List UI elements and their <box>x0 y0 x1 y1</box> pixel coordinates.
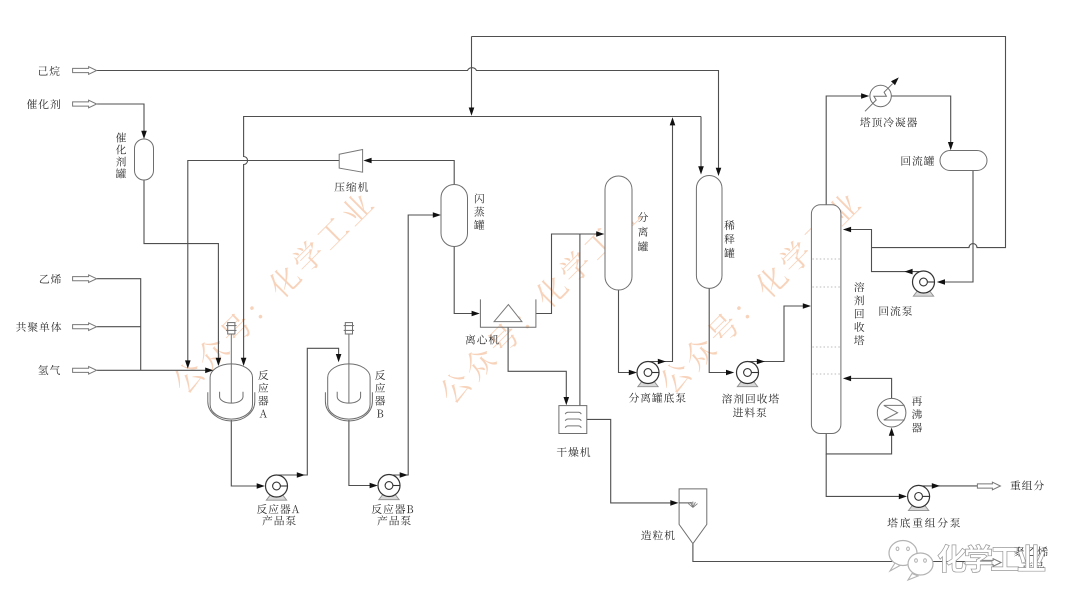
catalyst tank V1 <box>135 139 154 180</box>
label pump A <box>257 504 299 526</box>
label pump B <box>372 504 413 526</box>
wire dryer to granulator <box>587 419 679 505</box>
wire column bottoms to reboiler <box>826 428 894 454</box>
pump P-A product <box>266 475 288 500</box>
wire catalyst tank to reactor A <box>144 180 221 366</box>
label catalyst <box>27 99 60 109</box>
dryer <box>559 406 587 434</box>
wire separator bottom to pump <box>619 290 638 375</box>
wire ethylene feed <box>97 279 141 371</box>
wire flash bottom to centrifuge <box>454 247 480 317</box>
label catalyst tank <box>116 132 126 178</box>
centrifuge <box>480 299 536 327</box>
label granulator <box>641 530 674 540</box>
feed arrow ethylene <box>73 275 97 283</box>
reactor R-B <box>325 323 372 421</box>
wire reflux pump to column <box>843 227 924 275</box>
dilution tank V4 <box>696 176 722 289</box>
wire column overhead to condenser <box>826 93 869 205</box>
label separator tank <box>638 212 648 251</box>
label reboiler <box>912 396 922 432</box>
wire feed pump to column <box>748 303 812 364</box>
wire hexane feed <box>97 68 722 176</box>
wire reboiler return to column <box>843 376 892 399</box>
wire separator pump to header <box>648 117 675 364</box>
wire column bottoms to pump <box>826 454 907 499</box>
label condenser <box>860 117 917 127</box>
condenser E1 <box>865 77 899 111</box>
label ethylene <box>40 274 61 284</box>
compressor K1 <box>339 150 362 173</box>
label reflux pump <box>879 306 912 316</box>
label reactor A <box>258 370 268 417</box>
label reflux drum <box>901 156 934 166</box>
label comonomer <box>16 322 61 332</box>
label hexane <box>39 66 60 76</box>
feed arrow catalyst <box>73 100 97 108</box>
watermark 2 <box>436 199 642 406</box>
label separator pump <box>629 393 686 403</box>
wire recycle top line <box>472 37 1006 248</box>
flash tank V2 <box>441 185 468 247</box>
pump P-separator bottoms <box>637 362 659 387</box>
wire reactor B bottom to pump B <box>349 420 378 488</box>
pump P-B product <box>378 475 400 500</box>
wire header to dilution tank <box>698 117 704 175</box>
label compressor <box>335 182 369 192</box>
feed arrow comonomer <box>73 323 97 331</box>
wire reactor A bottom to pump A <box>231 420 265 489</box>
wire flash tank to compressor <box>363 158 454 185</box>
watermark 3 <box>656 189 862 396</box>
outlet arrow heavies <box>977 482 1000 490</box>
wire condenser to reflux drum <box>891 96 953 150</box>
wire pump B to flash tank <box>389 212 441 478</box>
reboiler E2 <box>877 398 906 427</box>
label polyethylene product <box>1014 546 1048 571</box>
outlet arrow product <box>978 559 1001 567</box>
separator tank V3 <box>605 176 632 290</box>
wire hydrogen feed to reactor A <box>97 368 214 374</box>
wire dilution tank to feed pump <box>709 288 734 375</box>
wire dryer vapor line <box>579 234 581 406</box>
wire centrifuge solids to dryer <box>508 327 569 405</box>
label reactor B <box>375 370 385 417</box>
pump P-reflux <box>913 271 935 296</box>
feed arrow hydrogen <box>73 367 97 375</box>
label column <box>854 282 864 345</box>
pump P-column bottoms <box>908 485 930 510</box>
wire catalyst feed <box>97 104 147 139</box>
label dryer <box>557 447 590 457</box>
label feed pump <box>722 394 779 418</box>
wire compressor discharge <box>185 161 339 369</box>
feed arrow hexane <box>73 67 97 75</box>
label hydrogen <box>38 365 60 375</box>
reflux drum V5 <box>940 151 987 171</box>
wire recycle drop to header <box>469 37 475 116</box>
label centrifuge <box>466 335 499 345</box>
granulator <box>679 489 707 544</box>
wire granulator product line <box>693 544 978 562</box>
wire solvent header <box>241 117 701 367</box>
wire comonomer feed <box>97 326 141 328</box>
wire reflux drum to reflux pump <box>937 171 973 285</box>
watermark 1 <box>169 189 375 396</box>
solvent recovery column T1 <box>811 205 841 434</box>
wechat logo <box>889 541 1045 581</box>
label flash tank <box>474 193 484 229</box>
wire centrifuge to separator tank <box>536 231 605 313</box>
reactor R-A <box>208 323 255 421</box>
wire heavies outlet <box>919 483 978 489</box>
label heavies <box>1010 480 1043 490</box>
label bottoms pump <box>887 518 960 528</box>
wire pump A to reactor B <box>277 348 342 478</box>
label dilution tank <box>724 220 734 258</box>
pump P-column feed <box>737 362 759 387</box>
